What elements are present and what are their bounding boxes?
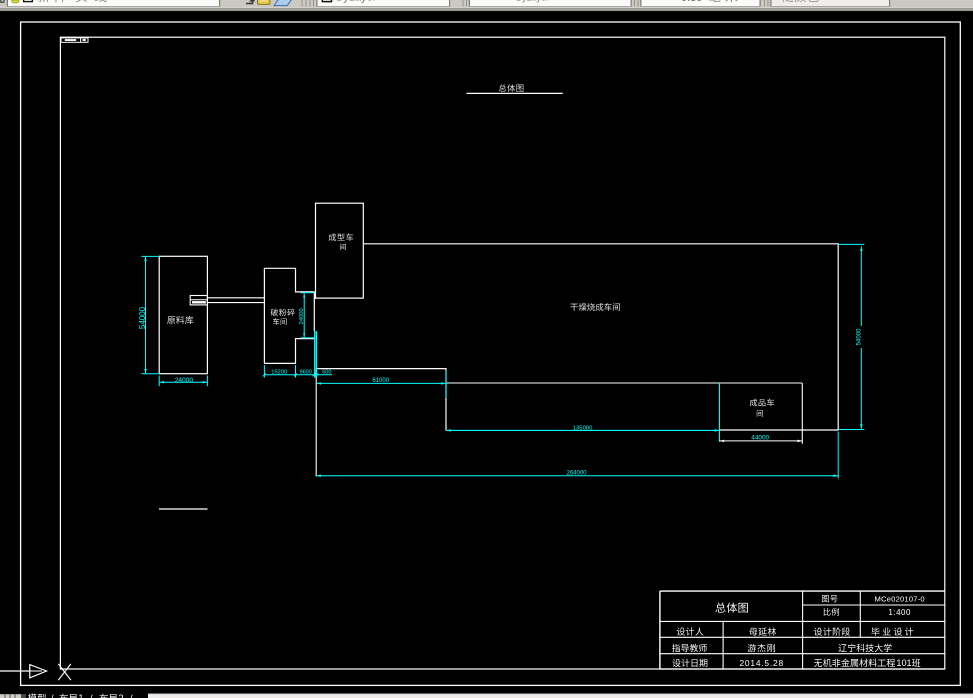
svg-text:44000: 44000 (751, 435, 769, 442)
svg-text:15200: 15200 (271, 370, 287, 376)
svg-text:ByLayer: ByLayer (336, 0, 377, 4)
svg-text:101: 101 (896, 658, 911, 668)
svg-text:MCe020107-0: MCe020107-0 (875, 594, 925, 603)
svg-text:0.30: 0.30 (681, 0, 702, 4)
svg-text:135000: 135000 (573, 426, 593, 432)
svg-text:ByLayer: ByLayer (516, 0, 549, 3)
svg-text:2: 2 (119, 693, 124, 698)
svg-text:1:400: 1:400 (888, 608, 911, 617)
svg-text:264000: 264000 (566, 470, 587, 476)
svg-text:1: 1 (79, 693, 84, 698)
svg-text:2014.5.28: 2014.5.28 (739, 658, 783, 668)
svg-text:9600: 9600 (300, 370, 312, 376)
svg-text:54000: 54000 (138, 306, 147, 329)
svg-text:600: 600 (322, 370, 331, 376)
svg-text:61000: 61000 (372, 378, 389, 384)
svg-text:24000: 24000 (299, 308, 305, 324)
svg-text:24000: 24000 (175, 377, 194, 384)
svg-text:54000: 54000 (857, 328, 863, 345)
